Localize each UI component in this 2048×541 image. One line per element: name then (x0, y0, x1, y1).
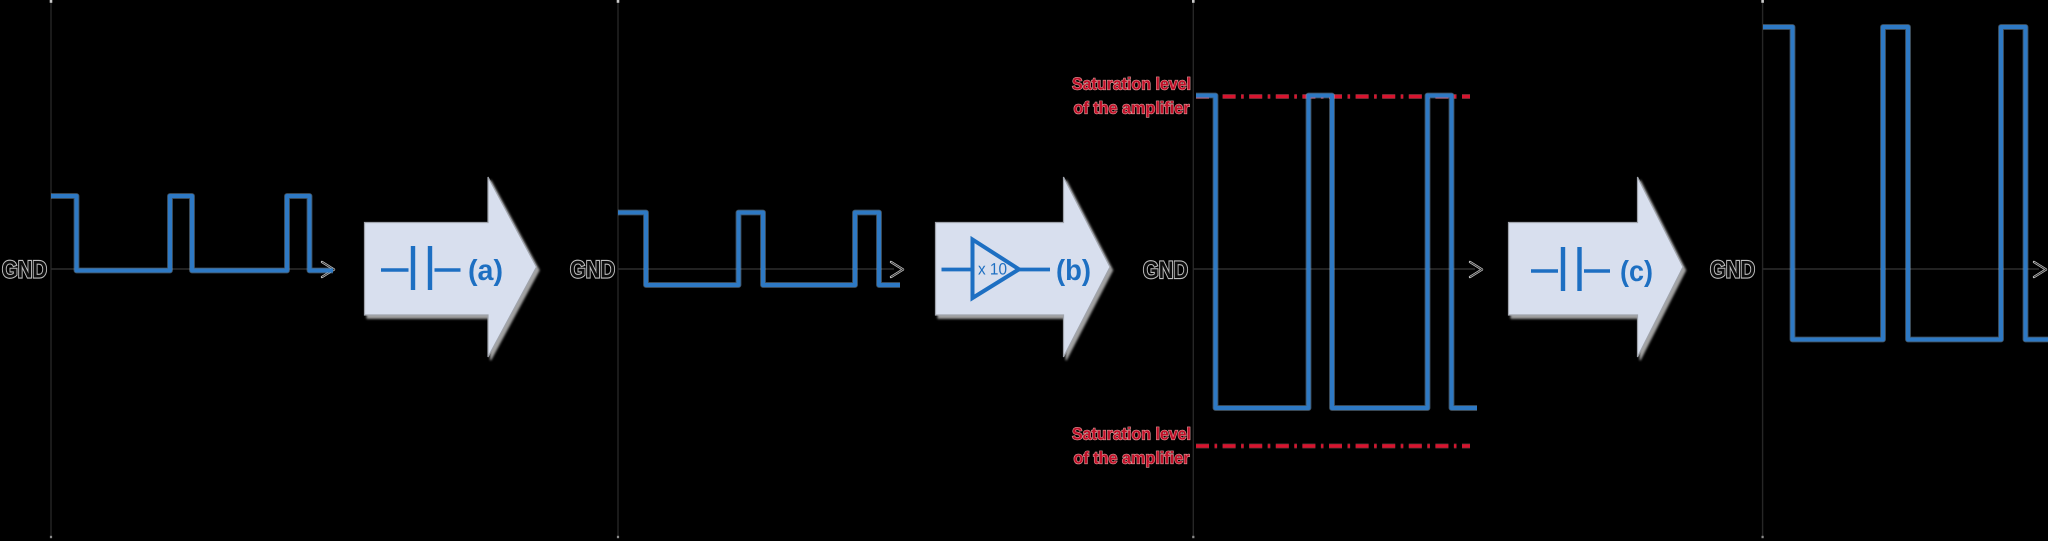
svg-text:(a): (a) (468, 255, 503, 287)
saturation label bottom (1072, 425, 1191, 468)
op-amp x10 in arrow (b) (942, 240, 1051, 299)
svg-text:GND: GND (1710, 257, 1755, 284)
wire time axis panel 1 (51, 262, 334, 277)
svg-text:GND: GND (570, 257, 615, 284)
svg-text:of the amplifier: of the amplifier (1074, 449, 1190, 468)
node GND label panel 4 (1710, 257, 1755, 284)
node GND axis vertical line panel 3 (1192, 0, 1195, 538)
wire waveform input signal panel 1 (51, 196, 333, 271)
node GND label panel 3 (1143, 257, 1188, 284)
block arrow (a) (365, 177, 537, 357)
node GND axis vertical line panel 4 (1761, 0, 1764, 538)
wire waveform output AC-coupled signal panel 4 (1763, 27, 2048, 340)
node GND axis vertical line panel 1 (50, 0, 53, 538)
svg-text:x 10: x 10 (978, 261, 1007, 279)
capacitor symbol in arrow (a) (381, 246, 461, 290)
saturation level dash-dot line top (1196, 94, 1470, 99)
svg-text:(b): (b) (1056, 255, 1091, 287)
svg-text:of the amplifier: of the amplifier (1074, 99, 1190, 118)
wire waveform amplified clipped signal panel 3 (1196, 96, 1477, 409)
capacitor symbol in arrow (c) (1531, 247, 1610, 291)
node GND axis vertical line panel 2 (617, 0, 620, 538)
saturation label top (1072, 75, 1191, 118)
node GND label panel 1 (2, 257, 47, 284)
wire time axis panel 3 (1193, 262, 1482, 277)
svg-text:GND: GND (2, 257, 47, 284)
svg-text:(c): (c) (1620, 256, 1653, 288)
svg-text:Saturation level: Saturation level (1072, 425, 1191, 444)
wire time axis panel 2 (618, 262, 903, 277)
saturation level dash-dot line bottom (1196, 444, 1470, 449)
wire waveform AC-coupled signal panel 2 (618, 213, 900, 286)
wire time axis panel 4 (1763, 262, 2046, 277)
svg-text:GND: GND (1143, 257, 1188, 284)
svg-text:Saturation level: Saturation level (1072, 75, 1191, 94)
node GND label panel 2 (570, 257, 615, 284)
block arrow (b) (936, 177, 1111, 357)
block arrow (c) (1509, 177, 1684, 357)
